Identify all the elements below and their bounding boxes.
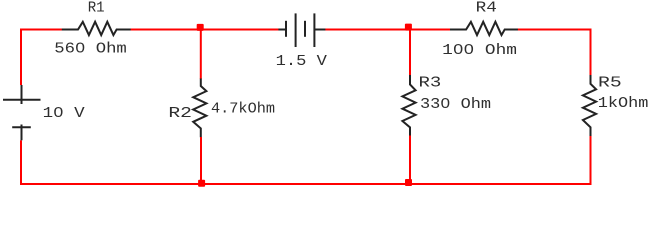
wire: top segment battery V2 to R4 — [325, 29, 450, 31]
svg-text:1.5 V: 1.5 V — [276, 54, 328, 70]
junction node D (bottom of R3) — [405, 179, 412, 186]
resistor R2 — [193, 79, 206, 138]
resistor R5 — [583, 75, 596, 136]
svg-text:1kOhm: 1kOhm — [598, 96, 649, 112]
wire: left branch top (battery V1 positive up to top-left corner, across to R1) — [21, 30, 62, 86]
battery V2 1.5 V — [278, 13, 325, 47]
junction node C (bottom of R2) — [198, 180, 205, 187]
svg-text:R3: R3 — [419, 75, 442, 91]
svg-text:R2: R2 — [168, 106, 192, 122]
wire: stub from node A down to R2 — [200, 30, 202, 80]
wire: bottom rail — [20, 183, 592, 185]
svg-text:10 V: 10 V — [43, 106, 85, 122]
wire: top-right corner R4 to R5 — [518, 30, 591, 76]
wire: stub from node B down to R3 — [409, 30, 411, 76]
svg-text:4.7kOhm: 4.7kOhm — [211, 101, 275, 117]
wire: right branch bottom (R5 to bottom-right corner) — [590, 136, 592, 184]
wire: left branch bottom (battery V1 negative down to bottom-left corner) — [20, 140, 22, 185]
zero glyph dot patches (plain-zero appearance) — [57, 46, 471, 113]
junction node A (top of R2) — [197, 24, 204, 31]
resistor R4 — [450, 22, 518, 35]
wire: stub from R3 down to bottom rail — [409, 136, 411, 185]
svg-text:R5: R5 — [598, 75, 622, 91]
svg-text:100 Ohm: 100 Ohm — [442, 43, 517, 59]
resistor R1 — [62, 22, 131, 35]
junction node B (top of R3) — [405, 24, 412, 31]
wire: stub from R2 down to bottom rail — [200, 137, 202, 184]
svg-text:R4: R4 — [476, 1, 497, 17]
wire: top segment R1 to battery V2 — [131, 29, 279, 31]
resistor R3 — [402, 75, 415, 136]
svg-text:330 Ohm: 330 Ohm — [420, 97, 491, 113]
battery V1 10 V — [3, 85, 41, 140]
svg-text:560 Ohm: 560 Ohm — [54, 42, 127, 58]
svg-text:R1: R1 — [88, 0, 105, 16]
